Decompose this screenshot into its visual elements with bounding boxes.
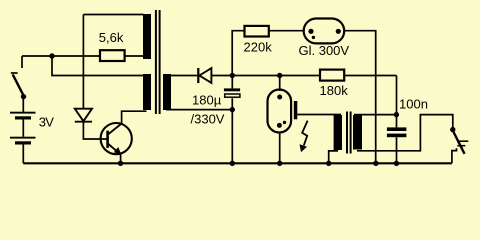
switch S2 pivot dot [450, 127, 455, 132]
junction dot C1 rail [230, 161, 235, 166]
flash tube top lead [279, 76, 281, 92]
diode D2 cathode bar [197, 68, 199, 83]
wire T2 right bottom to switch branch [357, 115, 453, 151]
transformer T1 winding right (secondary) [163, 74, 171, 110]
resistor R2 220k box [245, 26, 269, 37]
transformer T2 core line 2 [350, 112, 352, 154]
flash tube bottom electrode dot [277, 123, 282, 128]
capacitor C2 100n plate top [387, 127, 407, 131]
battery B1 plate + (cell1 long) [10, 112, 36, 114]
wire top-left horizontal (node A to resistor to transformer) [22, 55, 144, 57]
wire 220k to glow lamp [269, 30, 304, 32]
bottom rail [23, 162, 452, 164]
switch S2 actuator tick 2 [457, 145, 465, 147]
wire node A down and right to primary winding [52, 56, 144, 76]
diode D1 cathode bar [75, 121, 92, 123]
svg-text:/330V: /330V [191, 111, 225, 126]
wire main HV line [211, 75, 396, 77]
diode D2 triangle [199, 68, 211, 83]
switch S1 pivot dot [21, 94, 26, 99]
wire top feedback horizontal [83, 14, 143, 16]
flash tube top electrode dot [277, 95, 282, 100]
svg-text:3V: 3V [39, 115, 54, 130]
battery B1 plate - (cell2 thick) [15, 141, 31, 144]
wire switch stub [21, 56, 23, 68]
junction dot C2 rail [394, 161, 399, 166]
lightning arrowhead [300, 144, 308, 152]
wire between cells [22, 120, 24, 137]
junction dot glow rail [373, 161, 378, 166]
svg-text:220k: 220k [244, 39, 273, 54]
switch S1 blade [13, 74, 24, 96]
svg-text:Gl. 300V: Gl. 300V [299, 43, 350, 58]
transistor Q1 emitter arrowhead [114, 147, 122, 155]
junction dot flash tube top [277, 73, 282, 78]
wire T2 left bottom to rail [329, 151, 338, 163]
glow lamp electrode dot left [308, 29, 313, 34]
resistor R3 180k box [320, 70, 344, 81]
transistor Q1 emitter stroke [108, 144, 118, 152]
glow lamp body Gl. 300V [304, 19, 345, 44]
transformer T2 core line 1 [346, 112, 348, 154]
diode D1 triangle [75, 109, 92, 122]
battery B1 plate + (cell2 long) [10, 137, 36, 139]
wire D1 to transistor base [83, 122, 106, 139]
wire pivot to battery [22, 97, 24, 112]
transformer T2 winding left [334, 115, 342, 150]
transistor Q1 base bar [106, 131, 109, 148]
junction dot secondary bottom [230, 107, 235, 112]
junction dot emitter-rail [118, 161, 123, 166]
junction dot T2 rail [326, 161, 331, 166]
svg-text:180k: 180k [320, 83, 349, 98]
transformer T1 winding top-left [143, 14, 151, 59]
node A junction dot [49, 53, 54, 58]
switch S2 blade [453, 131, 465, 154]
wire vertical feedback line [82, 15, 84, 109]
lightning bolt [302, 121, 307, 146]
wire battery to bottom rail [22, 145, 24, 164]
capacitor C2 100n plate bottom [387, 134, 407, 138]
wire secondary top to diode [171, 75, 197, 77]
junction dot 100n node [394, 112, 399, 117]
glow lamp small dot [312, 36, 315, 39]
svg-text:180µ: 180µ [192, 92, 222, 107]
switch S1 blade tick [11, 72, 18, 74]
wire collector to primary bottom [122, 111, 147, 123]
glow lamp electrode dot right [336, 29, 341, 34]
flash tube bottom lead [279, 132, 281, 164]
transformer T1 core line 2 [159, 10, 161, 114]
wire 220k branch riser [232, 31, 244, 76]
wire emitter to rail [120, 153, 122, 164]
wire secondary bottom [166, 109, 232, 111]
capacitor C1 solid plate [224, 88, 240, 91]
transistor Q1 circle [101, 123, 132, 154]
wire 180k to 100n riser [396, 76, 398, 128]
resistor R1 5,6k box [100, 50, 125, 61]
capacitor C1 bottom lead [231, 98, 233, 163]
svg-text:100n: 100n [399, 96, 428, 111]
capacitor C1 180µ top lead [231, 76, 233, 89]
wire T2 right top to 100n node [354, 114, 396, 116]
rail end contact step [452, 148, 457, 163]
capacitor C2 bottom lead [396, 137, 398, 163]
capacitor C1 hollow plate [225, 94, 240, 97]
wire glow lamp to rail [344, 31, 376, 164]
transformer T2 winding right [353, 115, 362, 150]
switch S2 actuator tick 1 [457, 140, 468, 142]
transformer T1 winding bottom-left [143, 74, 151, 110]
battery B1 plate - (cell1 thick) [15, 116, 31, 119]
svg-text:5,6k: 5,6k [99, 30, 124, 45]
junction dot tube rail [277, 161, 282, 166]
transistor Q1 collector stroke [108, 123, 122, 134]
wire trigger electrode to T2 [297, 114, 341, 116]
flash tube trigger electrode bar [294, 101, 298, 119]
junction dot cap C1 top [230, 73, 235, 78]
flash tube small dot [283, 121, 286, 124]
flash tube body [268, 90, 292, 133]
transformer T1 core line 1 [155, 10, 157, 114]
